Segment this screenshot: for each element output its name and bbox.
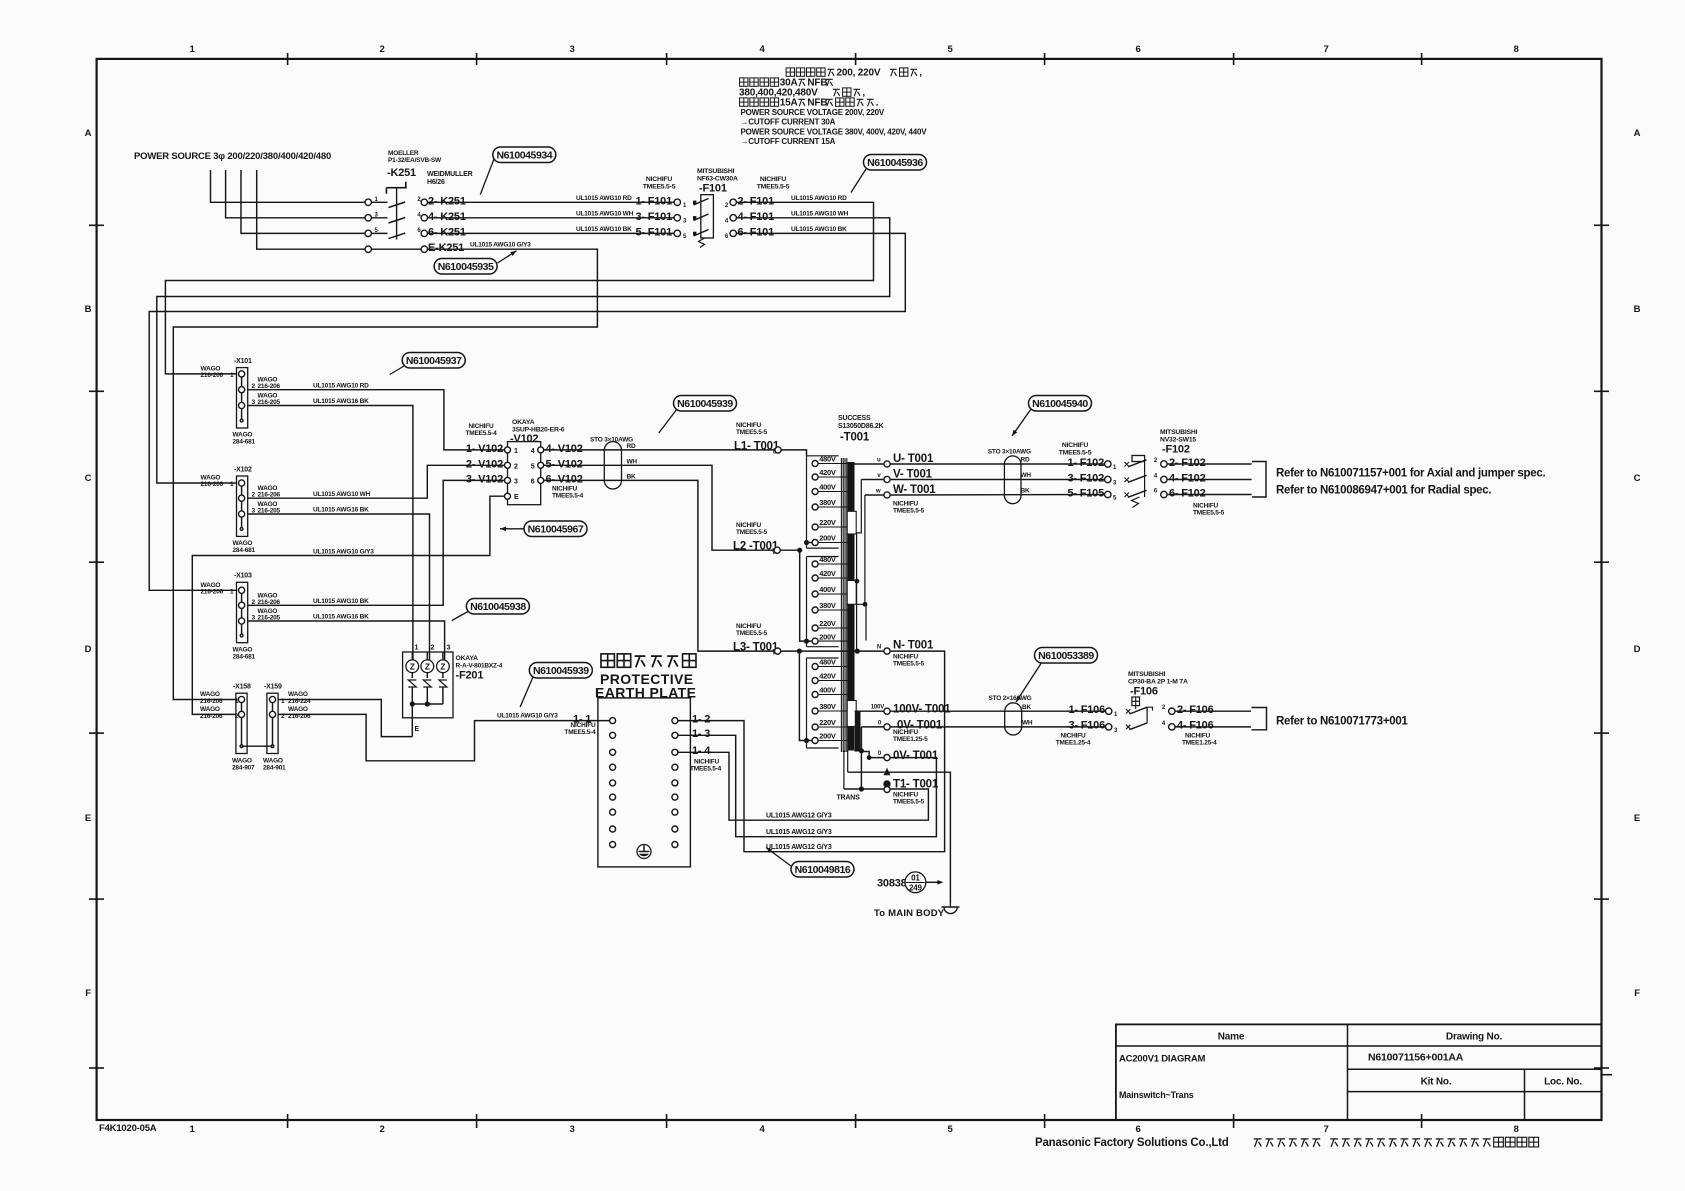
svg-text:-X102: -X102 [234,466,252,473]
svg-text:2: 2 [235,713,239,720]
svg-text:6: 6 [1135,44,1140,55]
circuit breaker F102 (MITSUBISHI NV32-SW15) [1059,429,1225,517]
svg-text:N610045940: N610045940 [1032,398,1088,410]
svg-text:H6/26: H6/26 [427,179,445,186]
svg-text:400V: 400V [819,483,836,492]
svg-text:2- F106: 2- F106 [1177,704,1214,716]
svg-text:WAGO: WAGO [233,540,253,547]
svg-text:WAGO: WAGO [200,706,220,713]
svg-text:TMEE5.5-5: TMEE5.5-5 [643,184,676,191]
wire: U-T001 to 1-F102 (RD) [890,463,1105,465]
wire: 4-V102 to L1-T001 (RD) [544,449,775,451]
label: F4K1020-05A [99,1123,157,1134]
svg-text:1- F102: 1- F102 [1067,457,1104,469]
svg-text:-T001: -T001 [840,432,870,444]
wire: L2 to 200V tap group2 [780,548,812,644]
svg-text:TMEE5.5-5: TMEE5.5-5 [1059,450,1092,457]
svg-text:AC200V1 DIAGRAM: AC200V1 DIAGRAM [1119,1054,1206,1065]
note: refer N610071773 [1276,716,1408,728]
wire: incoming phase 1 [211,170,366,202]
svg-text:3: 3 [447,645,451,652]
svg-text:NICHIFU: NICHIFU [893,654,918,661]
svg-text:NICHIFU: NICHIFU [893,792,918,799]
wire: 6-K251 to 5-F101 (UL1015 AWG10 BK) [428,226,675,233]
svg-text:-X103: -X103 [234,573,252,580]
svg-text:3- F106: 3- F106 [1068,720,1105,732]
svg-text:N610045935: N610045935 [438,261,494,273]
svg-text:480V: 480V [819,658,836,667]
note: factory voltage NFB selection (Japanese) [739,68,922,109]
wire: 4-F106 output [1175,726,1251,728]
svg-text:400V: 400V [819,585,836,594]
svg-text:7: 7 [1323,1124,1328,1135]
svg-text:NICHIFU: NICHIFU [646,176,672,183]
wire: X103.3 to F201.3 (UL1015 AWG16 BK) [248,614,445,660]
svg-text:TMEE1.25-5: TMEE1.25-5 [893,736,928,743]
drawing border frame [97,59,1602,1120]
node 1-4 label [690,745,722,772]
svg-text:.: . [876,98,879,109]
terminal block X159 (WAGO) [263,684,311,772]
svg-text:284-681: 284-681 [233,547,256,554]
svg-text:B: B [85,304,92,315]
svg-text:WH: WH [627,458,638,465]
svg-text:3: 3 [569,1124,574,1135]
svg-text:BK: BK [1021,487,1030,494]
svg-text:1: 1 [230,588,234,595]
svg-text:TMEE5.5-5: TMEE5.5-5 [736,529,768,536]
svg-text:2- F101: 2- F101 [738,195,775,207]
svg-text:BK: BK [627,474,636,481]
T001 secondary internal links [855,480,868,652]
svg-text:UL1015 AWG10 WH: UL1015 AWG10 WH [791,211,849,218]
label: Panasonic Factory Solutions [1035,1137,1539,1149]
svg-text:1- 4: 1- 4 [692,745,711,757]
svg-text:N610045939: N610045939 [533,665,589,677]
wire: 2-F106 output [1175,710,1251,712]
bracket F102 outputs [1252,462,1266,498]
svg-text:Z: Z [440,662,445,672]
bracket F106 outputs [1252,708,1267,730]
callout N610045939 earth wire [520,663,592,708]
svg-text:216-206: 216-206 [200,713,223,720]
svg-text:N610045936: N610045936 [867,157,923,169]
svg-text:S13050D86.2K: S13050D86.2K [838,423,884,430]
svg-text:5: 5 [531,463,535,470]
callout N610045938 [452,599,530,621]
svg-text:UL1015 AWG16 BK: UL1015 AWG16 BK [313,398,369,405]
svg-text:380V: 380V [819,498,836,507]
svg-text:1- V102: 1- V102 [466,443,503,455]
svg-text:POWER SOURCE 3φ 200/220/380: POWER SOURCE 3φ 200/220/380/400/420/480 [134,151,331,162]
svg-text:WAGO: WAGO [288,691,308,698]
node 0V-T001 first [861,720,942,744]
svg-text:216-206: 216-206 [201,372,224,379]
svg-text:TMEE5.5-4: TMEE5.5-4 [552,492,584,499]
svg-text:N610045967: N610045967 [528,524,584,536]
svg-text:UL1015 AWG10 G/Y3: UL1015 AWG10 G/Y3 [497,713,558,720]
svg-text:Drawing No.: Drawing No. [1446,1032,1503,1043]
svg-text:C: C [85,473,92,484]
svg-text:OKAYA: OKAYA [512,419,535,426]
node N-T001 [877,640,934,668]
svg-text:NICHIFU: NICHIFU [736,522,761,529]
wire: transformer frame to main body earth [848,751,951,904]
wire: V102.E earth to X158.2 (UL1015 AWG10 G/Y3) [192,496,504,714]
node 100V-T001 [855,704,952,716]
svg-text:WAGO: WAGO [232,758,252,765]
svg-text:Refer to N610071157+001 for Ax: Refer to N610071157+001 for Axial and ju… [1276,468,1545,480]
svg-text:To MAIN BODY: To MAIN BODY [874,908,945,919]
node W-T001 [865,484,936,515]
svg-text:-X101: -X101 [234,358,252,365]
wire: L3 row to N terminal with 200V tap group3 [781,649,884,744]
svg-text:UL1015 AWG10 BK: UL1015 AWG10 BK [313,598,369,605]
svg-text:1- 2: 1- 2 [692,713,710,725]
svg-text:A: A [1634,128,1641,139]
svg-text:-F106: -F106 [1130,686,1158,698]
wire: X159.2 to earth plate 1-1 (UL1015 AWG10 G/Y3) [278,713,609,761]
node 1-3 label [692,728,710,740]
svg-text:NF63-CW30A: NF63-CW30A [697,176,738,183]
svg-text:N610045938: N610045938 [470,601,526,613]
svg-text:4- F106: 4- F106 [1177,720,1214,732]
svg-text:3- F102: 3- F102 [1067,472,1104,484]
svg-text:380,400,420,480V: 380,400,420,480V [739,88,818,99]
svg-text:100V: 100V [871,705,884,711]
svg-text:TMEE5.5-5: TMEE5.5-5 [736,429,768,436]
column tick marks top [288,53,1422,65]
wire: 6-V102 to L3-T001 (BK) [544,480,775,651]
svg-text:2: 2 [379,1124,384,1135]
svg-text:TMEE5.5-5: TMEE5.5-5 [893,799,925,806]
terminal block X101 (WAGO) [201,358,281,446]
svg-text:UL1015 AWG12 G/Y3: UL1015 AWG12 G/Y3 [766,829,832,836]
wire: incoming phase 2 [226,170,365,218]
svg-text:WAGO: WAGO [263,758,283,765]
svg-text:220V: 220V [819,619,836,628]
svg-text:STO 3×10AWG: STO 3×10AWG [988,449,1031,456]
title block [1116,1024,1612,1120]
svg-text:TRANS: TRANS [836,795,860,802]
svg-text:0V- T001: 0V- T001 [893,750,939,762]
column tick marks bottom [288,1114,1422,1128]
svg-text:480V: 480V [819,555,836,564]
wire: W-T001 to 5-F105 (BK) [890,494,1105,497]
svg-text:Mainswitch~Trans: Mainswitch~Trans [1119,1090,1194,1100]
svg-text:420V: 420V [819,569,836,578]
callout N610049816 [766,848,854,878]
svg-text:5- F105: 5- F105 [1067,487,1104,499]
row tick marks right [1594,225,1609,1068]
cable sheath STO 2x16AWG (T001-F106) [989,695,1033,735]
node L2-T001 [733,522,780,556]
svg-text:STO 2×16AWG: STO 2×16AWG [989,695,1032,702]
svg-text:-V102: -V102 [510,433,538,445]
svg-text:6: 6 [1135,1124,1140,1135]
svg-text:-F201: -F201 [456,670,484,682]
svg-text:6- V102: 6- V102 [546,473,583,485]
svg-text:NICHIFU: NICHIFU [736,623,761,630]
svg-text:N610053389: N610053389 [1038,650,1094,662]
svg-text:CP30-BA 2P 1-M 7A: CP30-BA 2P 1-M 7A [1128,679,1188,686]
svg-text:C: C [1634,473,1641,484]
svg-text:TMEE5.5-5: TMEE5.5-5 [893,508,925,515]
svg-text:NICHIFU: NICHIFU [893,501,918,508]
terminal block X158 (WAGO) [200,684,255,772]
svg-text:NICHIFU: NICHIFU [893,729,918,736]
wire: X102.2 to 2-V102 (UL1015 AWG10 WH) [248,465,505,498]
wire: X101.2 to 1-V102 (UL1015 AWG10 RD) [248,383,505,450]
svg-text:E: E [415,726,420,733]
svg-text:200V: 200V [819,732,836,741]
label: POWER SOURCE 3-phase [134,151,331,162]
svg-text:UL1015 AWG10 WH: UL1015 AWG10 WH [313,491,371,498]
node V-T001 [861,469,932,483]
column numbers top [189,44,1518,55]
svg-text:30838: 30838 [877,878,907,890]
svg-text:200, 220V: 200, 220V [837,68,881,79]
svg-text:RD: RD [627,443,636,450]
label: PROTECTIVE EARTH PLATE [595,671,696,701]
T001 primary taps group 1 [812,455,847,546]
svg-text:NICHIFU: NICHIFU [736,422,761,429]
svg-text:,: , [862,88,865,99]
main switch K251 (MOELLER P1-32/EA/SVB-SW) [365,150,473,254]
svg-text:3- V102: 3- V102 [466,473,503,485]
svg-text:POWER SOURCE VOLTAGE 200V,: POWER SOURCE VOLTAGE 200V, 220V [741,108,885,117]
T001 secondary 100V winding bar [855,711,861,752]
svg-text:UL1015 AWG10 RD: UL1015 AWG10 RD [313,383,369,390]
svg-text:TMEE1.25-4: TMEE1.25-4 [1056,740,1091,747]
svg-text:F4K1020-05A: F4K1020-05A [99,1123,157,1134]
callout N610045940 [1012,396,1092,437]
terminal block X102 (WAGO) [201,466,281,554]
svg-text:249: 249 [909,884,922,893]
svg-text:380V: 380V [819,601,836,610]
svg-text:TMEE5.5-4: TMEE5.5-4 [465,430,497,437]
svg-text:216-206: 216-206 [201,481,224,488]
node T1-T001 shield terminal [836,751,938,806]
cable sheath STO 3x10AWG (T001-F102) [988,449,1032,504]
svg-text:UL1015 AWG10 BK: UL1015 AWG10 BK [791,226,847,233]
svg-text:UL1015 AWG16 BK: UL1015 AWG16 BK [313,614,369,621]
callout N610045934 [480,147,556,195]
svg-text:MITSUBISHI: MITSUBISHI [697,168,735,175]
svg-text:WAGO: WAGO [288,706,308,713]
row tick marks left [89,225,104,1068]
wire: 2-F101 RD return to X101 (UL1015 AWG10 RD) [165,195,873,374]
svg-text:→CUTOFF CURRENT 30A: →CUTOFF CURRENT 30A [741,118,836,127]
wire: X102.3 to F201.2 (UL1015 AWG16 BK) [248,507,430,660]
wire: earth plate 1-2 to N-T001 (UL1015 AWG12 G/Y3) [678,651,945,852]
svg-text:4: 4 [531,448,535,455]
svg-text:NICHIFU: NICHIFU [1193,503,1218,510]
svg-text:TMEE5.5-5: TMEE5.5-5 [757,184,790,191]
svg-text:Z: Z [410,662,415,672]
svg-text:3: 3 [569,44,574,55]
svg-text:4- F102: 4- F102 [1169,472,1206,484]
svg-text:OKAYA: OKAYA [456,655,479,662]
svg-text:Panasonic Factory Solutions Co: Panasonic Factory Solutions Co.,Ltd [1035,1137,1229,1149]
row letters right [1634,128,1641,999]
svg-text:2: 2 [431,645,435,652]
svg-text:N610045937: N610045937 [406,355,462,367]
svg-text:1- F106: 1- F106 [1068,704,1105,716]
svg-text:1- 3: 1- 3 [692,728,710,740]
svg-text:216-206: 216-206 [201,588,224,595]
svg-text:UL1015 AWG10 RD: UL1015 AWG10 RD [576,195,632,202]
wire: X103.2 to 3-V102 (UL1015 AWG10 BK) [248,480,505,605]
wire: incoming phase 3 [241,170,365,233]
note: refer Axial and jumper spec [1276,468,1545,497]
label: protective earth plate (Japanese) [601,654,696,667]
row letters left [85,128,92,999]
svg-text:MOELLER: MOELLER [388,150,419,157]
svg-text:6- F101: 6- F101 [738,226,775,238]
svg-text:6: 6 [531,478,535,485]
svg-text:R-A-V-801BXZ-4: R-A-V-801BXZ-4 [456,663,503,670]
svg-text:4- F101: 4- F101 [738,211,775,223]
svg-text:4- V102: 4- V102 [546,443,583,455]
wire: X101.3 to F201.1 (UL1015 AWG16 BK) [248,398,413,660]
svg-text:-X158: -X158 [233,684,251,691]
svg-text:WH: WH [1021,472,1032,479]
circuit breaker F106 (MITSUBISHI CP30-BA 2P 1-M 7A) [1056,671,1217,747]
svg-text:RD: RD [1021,457,1030,464]
node U-T001 [855,453,934,467]
svg-text:284-681: 284-681 [233,439,256,446]
svg-text:TMEE5.5-5: TMEE5.5-5 [1193,510,1225,517]
svg-text:D: D [85,644,92,655]
wire: incoming earth [257,170,365,249]
svg-text:TMEE1.25-4: TMEE1.25-4 [1182,740,1217,747]
svg-text:UL1015 AWG10 RD: UL1015 AWG10 RD [791,195,847,202]
callout N610045936 [851,155,927,193]
svg-text:N610045934: N610045934 [496,150,552,162]
svg-text:216-206: 216-206 [200,698,223,705]
svg-text:NICHIFU: NICHIFU [469,423,494,430]
svg-text:2- V102: 2- V102 [466,458,503,470]
svg-text:Name: Name [1218,1032,1245,1043]
wire: earth plate 1-4 to T1-T001 (UL1015 AWG12 G/Y3) [678,752,928,820]
circuit breaker F101 (MITSUBISHI NF63-CW30A) [635,168,789,248]
svg-text:POWER SOURCE VOLTAGE 380V,: POWER SOURCE VOLTAGE 380V, 400V, 420V, 4… [741,127,928,136]
svg-text:MITSUBISHI: MITSUBISHI [1160,429,1198,436]
node L1-T001 [734,422,781,456]
svg-text:E: E [514,494,519,501]
svg-text:480V: 480V [819,455,836,464]
svg-text:WEIDMULLER: WEIDMULLER [427,171,473,178]
svg-text:N610071156+001AA: N610071156+001AA [1368,1052,1464,1064]
svg-text:2: 2 [379,44,384,55]
wire: earth plate 1-3 to 0V-T001 (UL1015 AWG12 G/Y3) [678,735,936,836]
svg-text:WAGO: WAGO [200,691,220,698]
svg-text:NICHIFU: NICHIFU [1062,442,1088,449]
T001 primary taps group 2 [812,555,847,644]
svg-text:Z: Z [425,662,430,672]
svg-text:6- F102: 6- F102 [1169,487,1206,499]
svg-text:SUCCESS: SUCCESS [838,415,871,422]
svg-text:200V: 200V [819,632,836,641]
node 0V-T001 second [861,750,938,762]
svg-text:284-681: 284-681 [233,653,256,660]
svg-text:5- F101: 5- F101 [635,226,672,238]
svg-text:2- K251: 2- K251 [428,195,466,207]
transformer T001 (SUCCESS S13050D86.2K) [807,415,884,752]
wire: X159.1 to F201 earth [278,700,412,737]
wire: 4-F102 output [1167,479,1252,481]
svg-text:-X159: -X159 [264,684,282,691]
svg-text:2: 2 [514,463,518,470]
wire: 4-K251 to 3-F101 (UL1015 AWG10 WH) [428,211,675,218]
svg-text:F: F [85,988,91,999]
wire: 6-F102 output [1167,494,1252,496]
wire: 100V-T001 to 1-F106 (BK) [890,710,1105,712]
svg-text:220V: 220V [819,518,836,527]
wire: 2-F102 output [1167,463,1252,465]
svg-text:7: 7 [1323,44,1328,55]
wire: 0V bus down to T1 row [855,727,865,792]
svg-text:NICHIFU: NICHIFU [694,759,719,766]
svg-text:,: , [919,68,922,79]
svg-text:E: E [1634,813,1640,824]
svg-text:UL1015 AWG16 BK: UL1015 AWG16 BK [313,507,369,514]
svg-text:WAGO: WAGO [233,432,253,439]
svg-text:UL1015 AWG12 G/Y3: UL1015 AWG12 G/Y3 [766,813,832,820]
svg-text:N610045939: N610045939 [677,398,733,410]
wire: 5-V102 to L2-T001 (WH) [544,465,775,550]
svg-text:BK: BK [1022,704,1031,711]
wire: 6-F101 BK return to X103 (UL1015 AWG10 BK) [149,226,905,590]
svg-text:F: F [1634,988,1640,999]
svg-text:A: A [85,128,92,139]
svg-text:NFB: NFB [807,98,827,109]
svg-text:MITSUBISHI: MITSUBISHI [1128,671,1166,678]
callout N610045967 [500,521,587,537]
callout N610053389 [1016,648,1098,703]
svg-text:TMEE5.5-5: TMEE5.5-5 [736,630,768,637]
svg-text:1- F101: 1- F101 [635,195,672,207]
svg-text:NV32-SW15: NV32-SW15 [1160,437,1196,444]
svg-text:TMEE5.5-5: TMEE5.5-5 [893,661,925,668]
wire: 2-K251 to 1-F101 (UL1015 AWG10 RD) [428,195,675,202]
svg-text:E: E [85,813,91,824]
svg-text:NICHIFU: NICHIFU [1061,733,1086,740]
svg-text:2- F102: 2- F102 [1169,457,1206,469]
svg-text:6- K251: 6- K251 [428,226,466,238]
svg-text:V- T001: V- T001 [893,469,933,481]
note: power source voltage cutoff current (English) [741,108,928,146]
svg-text:WAGO: WAGO [233,646,253,653]
svg-text:1: 1 [230,372,234,379]
svg-text:w: w [875,489,881,495]
terminal block X103 (WAGO) [201,573,281,661]
column numbers bottom [189,1124,1518,1135]
cable sheath STO 3x10AWG (V102-T001) [590,437,637,490]
svg-text:1: 1 [230,481,234,488]
svg-text:UL1015 AWG12 G/Y3: UL1015 AWG12 G/Y3 [766,844,832,851]
svg-text:1: 1 [415,645,419,652]
wire: 4-F101 WH return to X102 (UL1015 AWG10 WH) [157,211,890,484]
svg-text:UL1015 AWG10 BK: UL1015 AWG10 BK [576,226,632,233]
svg-text:Refer to N610071773+001: Refer to N610071773+001 [1276,716,1408,728]
svg-text:D: D [1634,644,1641,655]
svg-text:Kit No.: Kit No. [1421,1077,1452,1088]
protective earth plate body [598,698,691,867]
svg-text:400V: 400V [819,686,836,695]
svg-text:420V: 420V [819,672,836,681]
